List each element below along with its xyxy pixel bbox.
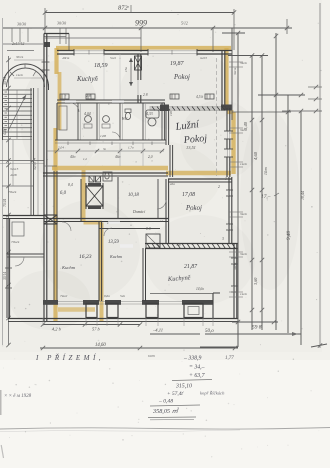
south wall (bottom) thin base	[43, 301, 213, 303]
left short dim line y50	[7, 50, 34, 52]
witness line x234	[233, 9, 235, 50]
pier at loznice NW	[160, 105, 169, 112]
svg-text:WC: WC	[122, 117, 128, 121]
top wall (north facade)	[57, 50, 232, 52]
bottom right bracket	[200, 346, 238, 348]
right end cross x318	[311, 344, 327, 347]
right dim connector y112	[232, 111, 291, 113]
east wall upper (pokoj 19,87)	[221, 51, 223, 109]
corridor wall below shaft	[44, 218, 168, 220]
witness line x213	[212, 27, 214, 52]
svg-text:×: ×	[95, 148, 98, 153]
svg-text:40o: 40o	[70, 155, 76, 159]
svg-text:34cm: 34cm	[240, 212, 248, 216]
west wall mid	[43, 88, 45, 215]
witness line x287	[286, 19, 288, 34]
west wall lower	[43, 215, 45, 322]
left dimension vertical	[8, 56, 10, 345]
neighbour small closet	[12, 222, 24, 236]
svg-text:= 34,–: = 34,–	[189, 364, 205, 371]
wall x118 room 10,18 west	[117, 177, 119, 219]
washbasin fixture 1	[85, 116, 92, 123]
right vertical R7	[300, 111, 302, 345]
stair bay outer arc	[3, 64, 49, 87]
svg-text:70x24: 70x24	[8, 190, 17, 194]
svg-text:14: 14	[160, 219, 164, 223]
svg-text:Kuchm: Kuchm	[61, 265, 76, 270]
svg-text:70x24: 70x24	[11, 240, 20, 244]
svg-text:x6o: x6o	[169, 182, 175, 186]
room 13,59 top wall	[99, 228, 160, 230]
corridor north wall second line	[55, 142, 166, 144]
stair bay inner arc	[7, 68, 45, 87]
kitchen south wall	[57, 99, 165, 101]
hatched wall north of loznice	[150, 107, 225, 111]
wall x100 between 16,23 and 13,59	[98, 222, 100, 301]
door arc corridor	[62, 222, 71, 231]
bottom long dim line 14,60	[40, 347, 238, 349]
stair centerline	[16, 90, 18, 139]
top dimension line 872	[45, 12, 234, 14]
svg-text:5o/2: 5o/2	[110, 56, 116, 60]
vertical wall x81 beside yellow	[80, 179, 82, 222]
svg-text:30/30: 30/30	[57, 21, 66, 26]
stair bay east jamb	[48, 84, 50, 90]
door opening marks lower	[108, 221, 120, 223]
right vertical R1	[231, 28, 233, 120]
svg-text:21,87: 21,87	[184, 264, 198, 270]
svg-text:14,60: 14,60	[95, 343, 106, 348]
SE corner step	[212, 293, 214, 318]
dark junction block east T	[221, 105, 232, 111]
svg-text:6,0: 6,0	[60, 191, 67, 196]
highlighter jog below shaft	[84, 221, 103, 225]
svg-text:52o: 52o	[120, 294, 125, 298]
svg-text:59 8: 59 8	[252, 325, 262, 331]
svg-text:14cm: 14cm	[240, 292, 248, 296]
bottom dim line 2	[150, 333, 200, 335]
flue box right of 13,59	[146, 234, 160, 248]
flue squares above shaft	[89, 176, 94, 182]
svg-text:14cm: 14cm	[264, 167, 268, 175]
east windows mid	[226, 131, 230, 139]
svg-text:– 338,9: – 338,9	[183, 356, 201, 362]
NW corner step wall	[44, 33, 69, 35]
left short dim line y44	[3, 43, 43, 45]
kitchen/pokoj divider wall	[137, 54, 139, 80]
tick row under cells	[67, 142, 69, 146]
svg-text:8 8: 8 8	[146, 227, 151, 231]
pokoj 17,08 west wall	[165, 179, 167, 243]
svg-text:15o: 15o	[124, 67, 128, 72]
right dim line 50,o with arrow	[205, 333, 301, 335]
svg-text:34/15: 34/15	[33, 162, 37, 170]
svg-text:I PŘÍZEMÍ,: I PŘÍZEMÍ,	[35, 354, 104, 362]
right stubs near x316	[308, 86, 322, 88]
svg-text:2 8: 2 8	[86, 94, 91, 98]
witness line x45	[44, 8, 46, 34]
west wall window ticks kitchen	[42, 61, 50, 63]
neighbour window marks west	[5, 267, 12, 269]
svg-text:кит: кит	[148, 353, 155, 358]
svg-text:18,59: 18,59	[94, 63, 108, 69]
kitchen interior dim arrow	[130, 58, 132, 86]
svg-text:13,59: 13,59	[108, 240, 119, 245]
corridor dim string	[46, 150, 164, 152]
svg-text:358,05 ㎡: 358,05 ㎡	[152, 407, 180, 415]
svg-text:×: ×	[151, 159, 153, 163]
svg-text:46o: 46o	[115, 155, 121, 159]
svg-text:Pokoj: Pokoj	[173, 74, 190, 81]
stair bay west wall	[2, 87, 4, 140]
wall right of shaft	[85, 183, 87, 209]
dashed axis line	[216, 58, 218, 176]
kitchen faint witness lines	[103, 54, 105, 100]
right dim connector y55	[228, 55, 268, 57]
chimney shaft with cross	[86, 186, 103, 206]
terrace pier 2	[107, 304, 118, 318]
svg-text:↗: ↗	[126, 6, 129, 10]
highlighter path top horizontal	[56, 46, 231, 50]
terrace pier 3	[146, 304, 158, 318]
svg-text:5/12: 5/12	[181, 22, 188, 26]
highlighter vertical right of room 16,23	[100, 223, 104, 323]
svg-text:7moť: 7moť	[60, 294, 68, 298]
arc radial marks	[10, 72, 14, 76]
right vertical R5	[275, 33, 277, 330]
washbasin fixture 2	[103, 116, 110, 123]
svg-text:40cm: 40cm	[62, 56, 70, 60]
svg-text:30/14: 30/14	[3, 272, 7, 280]
inner wall pair under left highlight	[53, 171, 55, 301]
right dim connector y33	[222, 32, 245, 34]
right dim line 598	[232, 321, 278, 323]
svg-text:kopř Říčkách: kopř Říčkách	[200, 391, 225, 396]
cell partition shadows	[79, 103, 81, 140]
svg-text:16,23: 16,23	[79, 254, 92, 260]
right vertical R4	[261, 55, 263, 330]
scan noise speckles	[106, 70, 107, 71]
stair up-arrow	[8, 95, 26, 131]
neighbour north wall y215	[3, 215, 44, 217]
corridor north line	[44, 165, 57, 167]
right connector y111	[282, 110, 322, 112]
right tick rows	[229, 61, 243, 63]
junction block on west wall	[44, 215, 57, 224]
left small dim marks	[12, 140, 14, 186]
long fold line	[0, 428, 330, 430]
terrace pier 1	[86, 304, 97, 318]
NW corner dark block	[44, 42, 50, 47]
corridor stub partitions	[119, 143, 121, 166]
door arc kitchen	[70, 103, 79, 112]
landing line	[3, 136, 32, 138]
svg-text:×: ×	[135, 160, 137, 164]
cell shelf	[59, 106, 67, 130]
west wall upper	[43, 34, 45, 89]
highlighter path left vertical	[54, 48, 58, 74]
paper scan edge left	[2, 18, 4, 345]
left edge streaks	[0, 390, 2, 415]
svg-text:140: 140	[169, 111, 173, 116]
highlighter path mid horizontal right part	[166, 171, 231, 176]
svg-text:17,08: 17,08	[182, 192, 195, 198]
svg-text:2 8: 2 8	[143, 93, 148, 97]
door arc cell	[112, 132, 120, 140]
stair hall dim line	[0, 160, 44, 162]
svg-text:Pokoj: Pokoj	[185, 205, 202, 212]
svg-text:14cm: 14cm	[16, 73, 24, 77]
south wall pier segments	[43, 300, 58, 305]
south terrace outer edge	[8, 318, 238, 320]
top dimension line short	[45, 37, 141, 39]
svg-text:30/14: 30/14	[16, 55, 24, 59]
svg-text:3: 3	[222, 237, 224, 241]
neighbour west wall	[6, 218, 8, 318]
smudge patches	[20, 60, 100, 180]
right dim connector y95	[258, 94, 305, 96]
svg-text:34cm: 34cm	[240, 128, 248, 132]
east window ticks pokoj 17,08	[226, 189, 233, 191]
bottom dim line 1	[43, 324, 140, 326]
right vertical R8	[319, 3, 321, 348]
wall x145 west of 21,87	[142, 248, 144, 301]
highlighter inner vertical beside shaft	[82, 170, 86, 221]
highlighter path right jog	[227, 110, 234, 114]
svg-text:57 b: 57 b	[92, 327, 100, 332]
svg-text:Kuchm: Kuchm	[109, 254, 122, 259]
svg-text:4x28: 4x28	[10, 173, 17, 177]
radiator marks under north windows	[60, 94, 69, 99]
svg-text:+ 63,7: + 63,7	[189, 373, 206, 379]
stair treads	[3, 89, 32, 91]
svg-text:+ 57,4ť: + 57,4ť	[167, 391, 184, 397]
top dimension line 999	[3, 27, 292, 29]
right vertical R3	[251, 55, 253, 330]
witness line x141	[140, 27, 142, 52]
svg-text:9,40: 9,40	[285, 231, 292, 240]
east wall lower	[228, 177, 230, 243]
svg-text:× × ě м 1928: × × ě м 1928	[4, 394, 32, 399]
svg-text:34cm: 34cm	[240, 252, 248, 256]
small cell above shaft	[103, 172, 112, 181]
svg-text:14cm: 14cm	[240, 162, 248, 166]
svg-text:19,87: 19,87	[170, 61, 185, 67]
svg-text:34x15: 34x15	[10, 167, 19, 171]
svg-text:70/24: 70/24	[3, 199, 7, 207]
kitchen south wall openings	[65, 100, 76, 102]
highlighter path mid horizontal left part	[52, 166, 168, 171]
bath fixture	[146, 110, 159, 118]
highlighter path right vertical lower	[231, 112, 235, 174]
svg-text:50,o: 50,o	[205, 329, 214, 334]
highlighter underline at bottom wall	[58, 307, 95, 311]
stair hall mid vertical	[37, 88, 39, 215]
door arc room 13,59	[104, 228, 112, 236]
service cells bottom wall	[55, 139, 166, 141]
door arc pokoj 17,08	[157, 200, 166, 209]
stair shaft east wall	[30, 88, 32, 215]
svg-text:34cm: 34cm	[233, 67, 237, 75]
svg-text:10,18: 10,18	[128, 193, 139, 198]
svg-text:999: 999	[135, 19, 147, 28]
divider hatch block	[135, 56, 142, 70]
svg-text:m/23: m/23	[200, 56, 207, 60]
svg-text:315,10: 315,10	[175, 384, 192, 390]
neighbour mid wall	[7, 253, 44, 255]
service cells top row partitions	[56, 103, 58, 140]
room 10,18 east wall	[157, 179, 159, 219]
svg-text:Kuchyň: Kuchyň	[76, 76, 98, 83]
right vertical R6	[287, 95, 289, 333]
svg-text:34cm: 34cm	[240, 61, 248, 65]
svg-text:Domácí: Domácí	[132, 210, 146, 214]
svg-text:34cm: 34cm	[233, 262, 237, 270]
right vertical R2	[237, 33, 239, 346]
svg-text:3 8: 3 8	[176, 243, 181, 247]
svg-text:30/30: 30/30	[17, 22, 26, 27]
north windows	[74, 50, 104, 55]
svg-text:2: 2	[218, 185, 220, 189]
svg-text:3o: 3o	[103, 147, 107, 151]
highlighter path right vertical upper	[224, 48, 228, 110]
svg-text:1,77: 1,77	[225, 356, 234, 361]
loznice west wall	[165, 110, 167, 145]
terrace pier 4	[184, 304, 203, 318]
svg-text:3: 3	[225, 176, 227, 181]
corridor south wall (mid band)	[43, 172, 168, 174]
wc fixture	[125, 112, 130, 119]
east wall mid (loznice)	[226, 108, 228, 177]
svg-text:– 0,48: – 0,48	[158, 399, 173, 405]
svg-text:17,–: 17,–	[261, 194, 271, 200]
east window ticks room 21,87	[231, 257, 238, 259]
neighbour door arc	[15, 257, 24, 266]
witness stubs to bottom lines	[42, 318, 44, 326]
thick hatched wall y243	[145, 243, 238, 245]
